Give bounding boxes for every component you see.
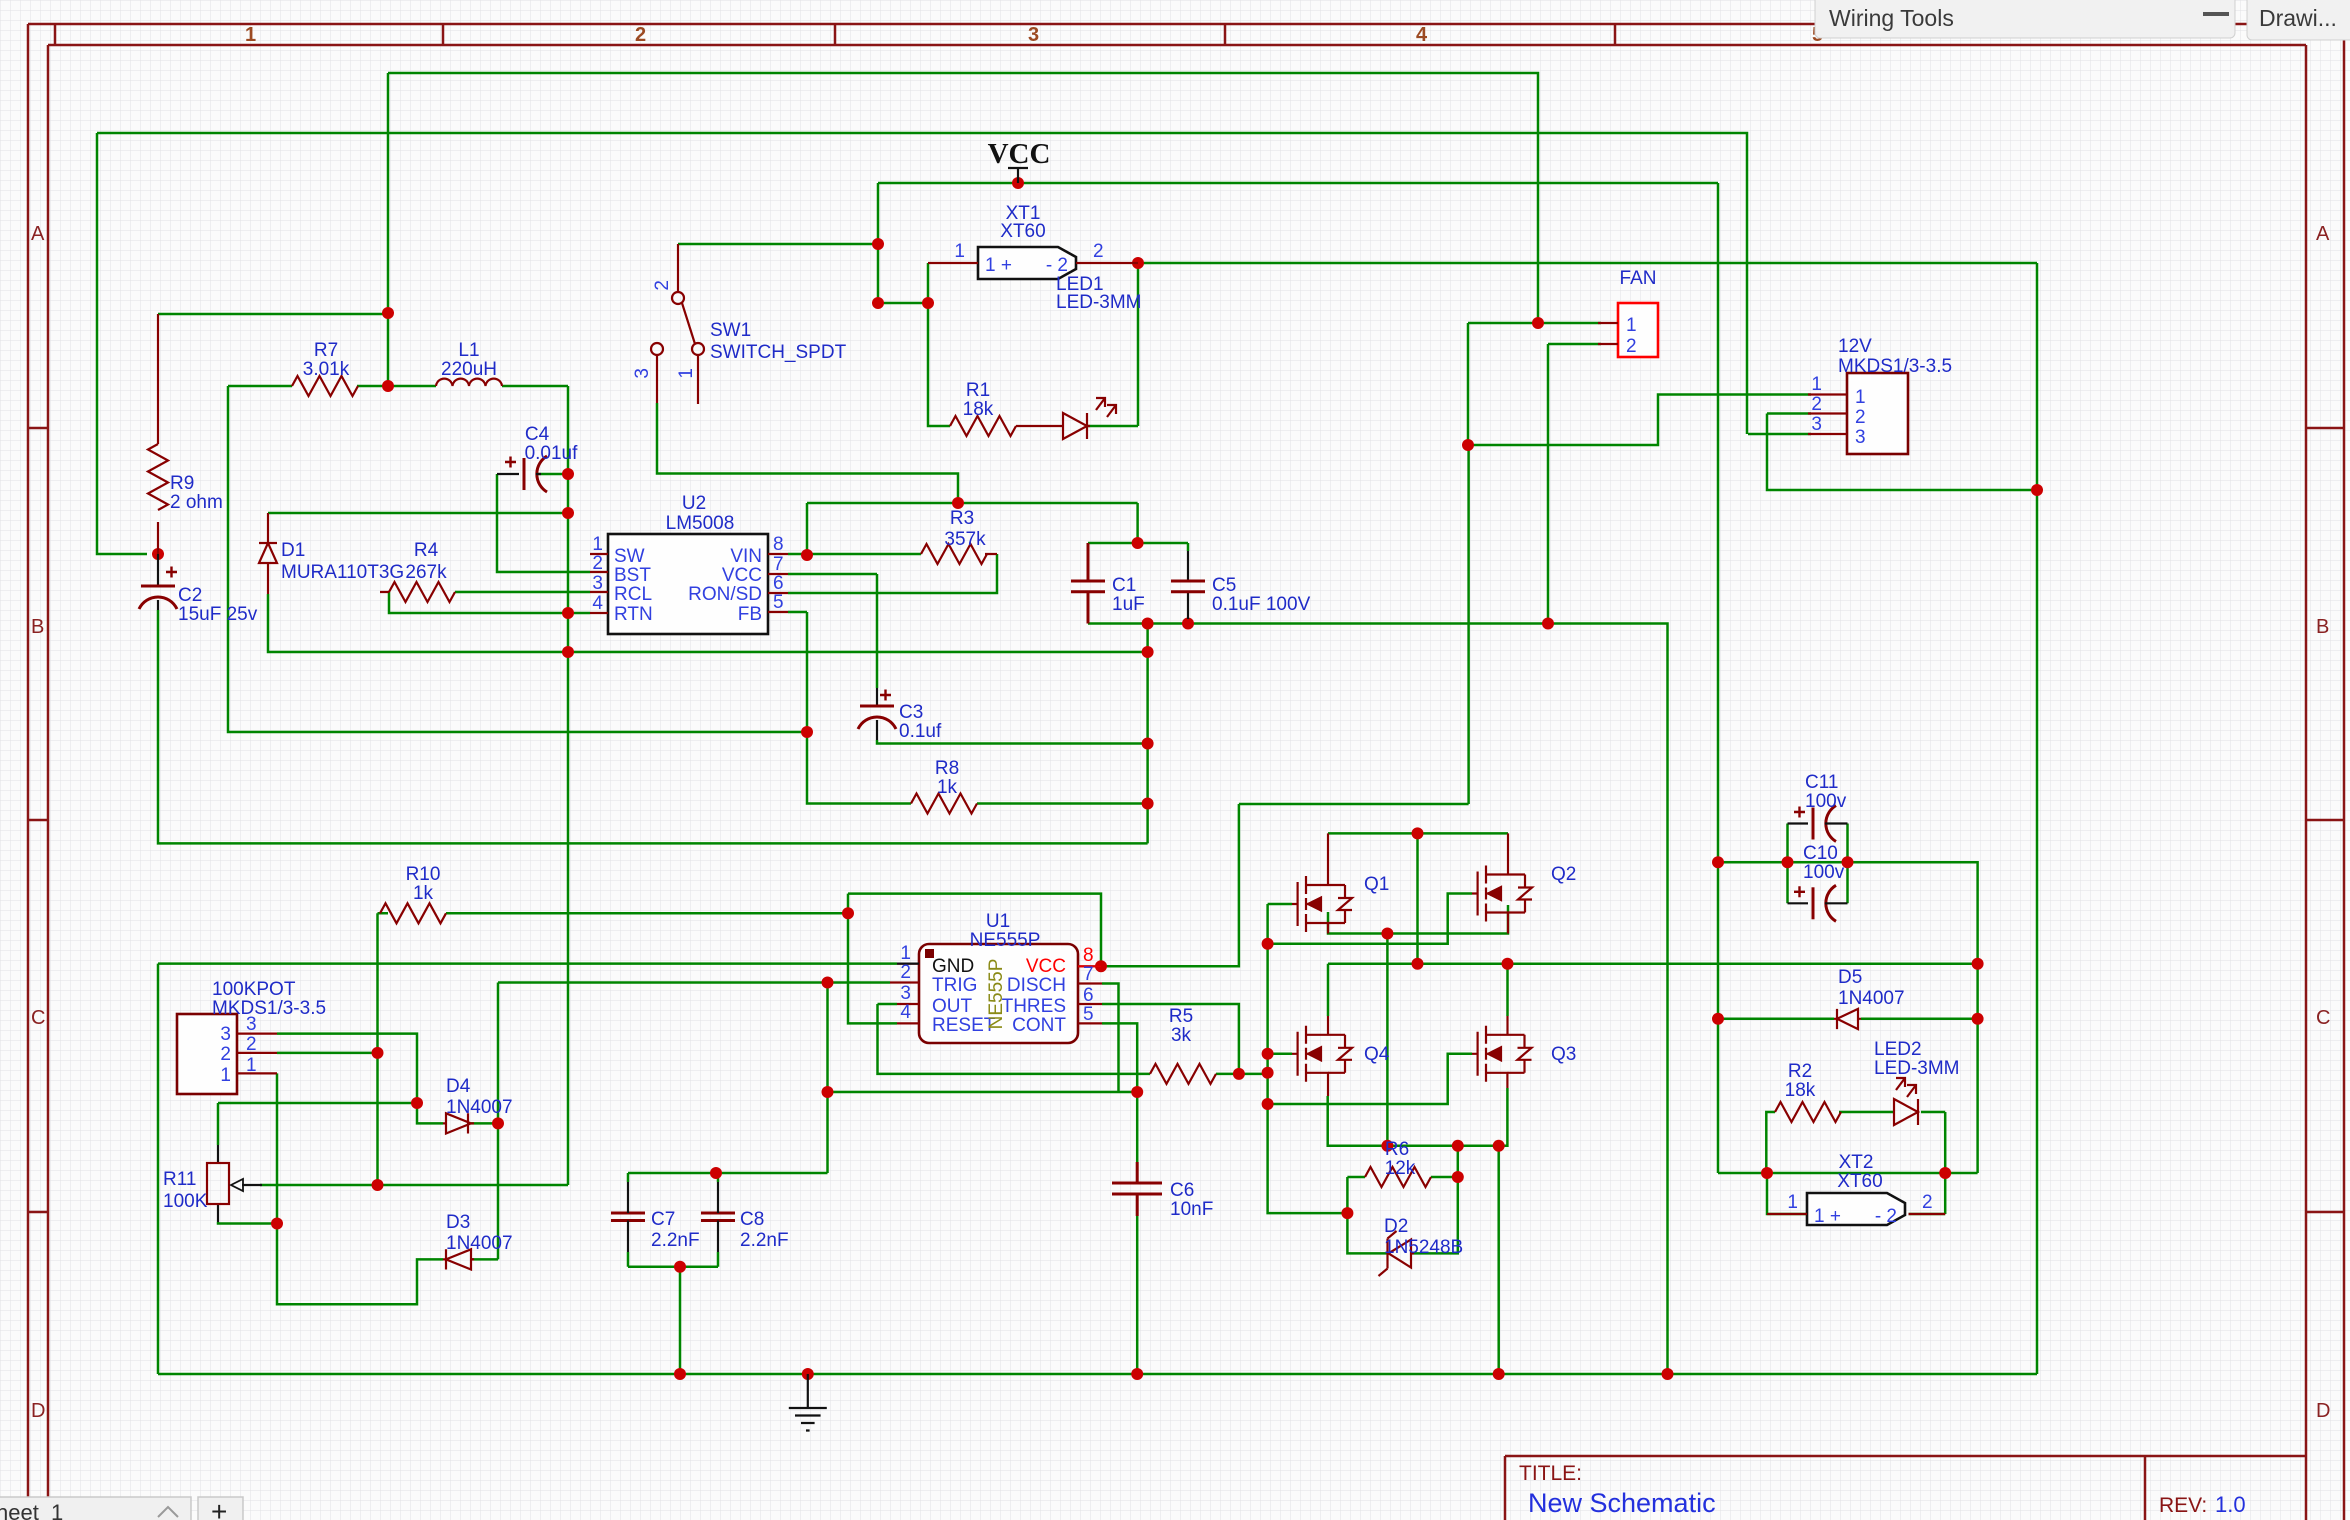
svg-text:6: 6 [773, 573, 784, 594]
wire THRES row to R5 node [1102, 1004, 1239, 1074]
svg-text:R10: R10 [406, 864, 441, 885]
wire C8 legs [717, 1173, 720, 1267]
svg-text:15uF 25v: 15uF 25v [178, 604, 258, 625]
U1 pin stubs [890, 964, 1102, 1024]
svg-text:2: 2 [220, 1044, 231, 1065]
wire R3 right to RON/SD [788, 554, 997, 593]
wire y=133 to 12V pin3 vertical [97, 133, 1747, 434]
svg-text:12k: 12k [1385, 1158, 1416, 1179]
svg-text:1: 1 [1811, 374, 1822, 395]
svg-text:R8: R8 [935, 758, 959, 779]
wire R8 node up to U1 pin8 [1101, 445, 1469, 966]
svg-text:3: 3 [1028, 24, 1039, 46]
wire VIN rail y=503 [807, 503, 1138, 554]
FAN pin stubs [1598, 323, 1618, 344]
svg-text:- 2: - 2 [1046, 255, 1068, 276]
svg-text:6: 6 [1083, 985, 1094, 1006]
svg-text:4: 4 [592, 593, 603, 614]
svg-text:VCC: VCC [1026, 956, 1066, 977]
svg-text:1: 1 [900, 943, 911, 964]
diode D3 [443, 1249, 474, 1269]
svg-text:7: 7 [773, 554, 784, 575]
svg-text:3: 3 [900, 983, 911, 1004]
wire U1 top rail y=893.6 [848, 894, 1101, 967]
svg-text:C1: C1 [1112, 575, 1136, 596]
wire VCC rail y=963.8 [1328, 964, 1978, 1016]
svg-text:GND: GND [932, 956, 974, 977]
wire x=1718 long vertical to XT2 rail [1717, 183, 1720, 1173]
svg-text:1: 1 [245, 24, 256, 46]
svg-text:MURA110T3G: MURA110T3G [281, 562, 404, 583]
wire x=568 long vertical [567, 386, 570, 1185]
wire R1 branch [928, 303, 1138, 426]
svg-text:1: 1 [220, 1065, 231, 1086]
svg-text:C5: C5 [1212, 575, 1236, 596]
wire R7 row y=386 [228, 385, 568, 388]
wire Q3 gate link [1268, 1054, 1472, 1104]
svg-text:VCC: VCC [722, 565, 762, 586]
svg-text:Q3: Q3 [1551, 1044, 1576, 1065]
capacitor C10 [1788, 885, 1848, 921]
wire DISCH TRIG link y=1092 [828, 1091, 1138, 1094]
wire GND left drop to ground rail [157, 964, 160, 1374]
svg-text:1: 1 [676, 368, 697, 379]
svg-text:R2: R2 [1788, 1061, 1812, 1082]
wire Q drain rail y=833.4 [1328, 832, 1508, 835]
svg-text:R1: R1 [966, 380, 990, 401]
wire R11 wiper row y=1185 [260, 1184, 568, 1187]
svg-text:RTN: RTN [614, 604, 653, 625]
svg-text:C4: C4 [525, 424, 550, 445]
svg-text:100v: 100v [1805, 791, 1847, 812]
resistor R5 [1150, 1064, 1216, 1084]
svg-text:1N4007: 1N4007 [1838, 988, 1905, 1009]
svg-text:7: 7 [1083, 964, 1094, 985]
svg-text:CONT: CONT [1012, 1015, 1066, 1036]
XT1 pin stubs [928, 262, 1138, 264]
wire x=878 down [877, 183, 880, 303]
svg-text:XT60: XT60 [1837, 1171, 1882, 1192]
svg-text:B: B [2316, 616, 2329, 638]
svg-text:5: 5 [773, 592, 784, 613]
svg-text:C10: C10 [1803, 843, 1838, 864]
svg-text:RON/SD: RON/SD [688, 584, 762, 605]
connector 100KPOT MKDS [177, 1014, 237, 1094]
svg-text:NE555P: NE555P [986, 959, 1007, 1030]
svg-text:LM5008: LM5008 [666, 513, 735, 534]
svg-text:8: 8 [1083, 945, 1094, 966]
VCC net flag [1008, 168, 1028, 183]
svg-text:R11: R11 [163, 1169, 196, 1190]
svg-text:1: 1 [1787, 1192, 1798, 1213]
wire C7 C8 top rail y=1173 [628, 1172, 828, 1175]
svg-text:NE555P: NE555P [970, 930, 1041, 951]
LED LED1 [1063, 398, 1116, 439]
capacitor C11 [1788, 806, 1848, 842]
capacitor C8 [701, 1213, 735, 1221]
svg-text:OUT: OUT [932, 996, 973, 1017]
wire R4 left loop to RTN y=613 [389, 592, 590, 613]
svg-text:R3: R3 [950, 508, 974, 529]
wire XT2 bottom rail [1718, 1019, 1978, 1173]
svg-text:2: 2 [1811, 394, 1822, 415]
svg-text:TRIG: TRIG [932, 975, 977, 996]
wire pot pin3 to D4 [277, 1034, 498, 1124]
wire x=1138 down to LED1 [1137, 263, 1140, 426]
IC U2 box [608, 534, 768, 634]
resistor R2 [1775, 1102, 1841, 1122]
svg-text:C3: C3 [899, 702, 923, 723]
svg-text:A: A [2316, 223, 2330, 245]
svg-text:2: 2 [900, 962, 911, 983]
wire switch pin3 to R3 top [657, 403, 958, 503]
potentiometer R11 [207, 1145, 262, 1222]
svg-text:D: D [31, 1400, 45, 1422]
svg-text:+: + [211, 1496, 227, 1520]
svg-text:R9: R9 [170, 473, 194, 494]
svg-text:Drawi...: Drawi... [2259, 5, 2337, 31]
wire C10 C11 right vertical [1846, 824, 1849, 904]
capacitor C3 [858, 688, 896, 740]
svg-text:FB: FB [738, 604, 762, 625]
wire left x=97 down to C2 top node [97, 133, 147, 554]
svg-text:D1: D1 [281, 540, 305, 561]
svg-text:D2: D2 [1384, 1216, 1408, 1237]
diode D4 [443, 1113, 474, 1133]
wire Q2 gate link [1268, 894, 1472, 944]
wire x=377.5 vertical [376, 913, 379, 1185]
svg-text:U2: U2 [682, 493, 706, 514]
svg-text:C11: C11 [1805, 772, 1838, 793]
wire VCC rail y=183 [878, 182, 1718, 185]
svg-text:10nF: 10nF [1170, 1199, 1213, 1220]
wire VIN pin stub row [788, 553, 807, 556]
svg-text:2: 2 [652, 280, 673, 291]
U1 pin1 marker [925, 949, 934, 958]
wire TRIG vertical x=827.5 [826, 983, 829, 1174]
svg-text:FAN: FAN [1620, 268, 1657, 289]
svg-text:0.01uf: 0.01uf [525, 443, 579, 464]
svg-text:3.01k: 3.01k [303, 359, 350, 380]
wire XT1 pin2 node to right [1138, 262, 2037, 265]
svg-text:3: 3 [1855, 427, 1866, 448]
U1 GND stub black [897, 962, 919, 964]
U2 pin stubs [590, 554, 788, 613]
diode D1 [259, 513, 277, 594]
resistor R10 [380, 903, 446, 923]
wire Q1 Q2 source rail y=933.5 [1328, 905, 1508, 934]
svg-text:3: 3 [1811, 414, 1822, 435]
svg-text:1N4007: 1N4007 [446, 1097, 513, 1118]
connector XT1 [978, 247, 1076, 279]
capacitor C5 [1171, 551, 1205, 619]
svg-text:Q2: Q2 [1551, 864, 1576, 885]
wire D5 row y=1018.8 [1718, 1018, 1978, 1021]
resistor R4 [380, 582, 455, 602]
svg-text:MKDS1/3-3.5: MKDS1/3-3.5 [1838, 356, 1952, 377]
wire GND row y=963.6 [158, 962, 897, 965]
svg-text:MKDS1/3-3.5: MKDS1/3-3.5 [212, 998, 326, 1019]
svg-text:Q4: Q4 [1364, 1044, 1390, 1065]
resistor R8 [911, 794, 977, 814]
svg-text:C7: C7 [651, 1209, 675, 1230]
svg-text:THRES: THRES [1002, 996, 1066, 1017]
svg-text:2: 2 [1855, 407, 1866, 428]
wire gate bus x=1267.6 [1268, 904, 1348, 1213]
capacitor C4 [497, 456, 547, 492]
node dots [382, 307, 394, 319]
svg-text:1: 1 [592, 534, 603, 555]
wire R7 left down and to FB dot y=732 [228, 386, 807, 732]
svg-text:LED2: LED2 [1874, 1039, 1922, 1060]
wire C4 left down to BST [497, 474, 590, 572]
transistor Q2 [1472, 833, 1532, 933]
wire x=1147.6 right column [1146, 624, 1149, 844]
wire R2 LED2 branch [1766, 1112, 1945, 1173]
svg-text:2: 2 [1093, 241, 1104, 262]
svg-text:Wiring Tools: Wiring Tools [1829, 5, 1954, 31]
wire mid vertical x=1417.5 [1416, 833, 1419, 963]
svg-text:18k: 18k [963, 399, 994, 420]
svg-text:1 +: 1 + [985, 255, 1012, 276]
wire x=388 vertical [387, 73, 390, 386]
wire Q3 source drop to ground [1497, 1146, 1500, 1374]
row ticks left band [28, 428, 48, 1212]
wire DISCH drop [1102, 984, 1119, 1093]
svg-text:DISCH: DISCH [1007, 975, 1066, 996]
svg-text:220uH: 220uH [441, 359, 497, 380]
svg-text:C: C [31, 1007, 45, 1029]
svg-text:267k: 267k [405, 562, 447, 583]
svg-text:1k: 1k [413, 883, 434, 904]
svg-text:4: 4 [900, 1002, 911, 1023]
svg-text:100v: 100v [1803, 862, 1845, 883]
svg-text:Q1: Q1 [1364, 874, 1389, 895]
wire C2 bottom to right rail y=843.4 [158, 610, 1148, 843]
svg-text:2: 2 [1922, 1192, 1933, 1213]
LED LED2 [1894, 1078, 1918, 1125]
wire C7 C8 bottom rail [628, 1267, 718, 1374]
wire C6 bottom to ground rail [1136, 1216, 1139, 1374]
svg-text:8: 8 [773, 534, 784, 555]
svg-text:XT60: XT60 [1000, 221, 1045, 242]
title block [1505, 1456, 2306, 1520]
12V pin stubs [1808, 395, 1847, 435]
wire Q bottom rail y=1145.7 [1328, 1088, 1508, 1146]
wire C7 legs [627, 1173, 630, 1267]
wire RCL row y=592 from R4 [455, 591, 590, 594]
wire D1 top rail y=513 [268, 512, 568, 515]
svg-text:- 2: - 2 [1875, 1206, 1897, 1227]
svg-text:1N5248B: 1N5248B [1384, 1237, 1463, 1258]
svg-text:12V: 12V [1838, 336, 1872, 357]
zener diode D2 [1379, 1231, 1415, 1276]
capacitor C6 [1112, 1162, 1162, 1216]
wire 12V pin2 loop [1767, 414, 2037, 491]
row ticks right band [2306, 428, 2344, 1212]
svg-text:TITLE:: TITLE: [1519, 1462, 1582, 1485]
svg-text:RCL: RCL [614, 584, 652, 605]
wire XT2 pins [1767, 1173, 1945, 1214]
wire C1 C5 top rail y=543 [1088, 543, 1188, 551]
svg-text:C: C [2316, 1007, 2330, 1029]
ground symbol [789, 1374, 827, 1431]
Sheet tab [0, 1496, 243, 1520]
svg-text:3: 3 [220, 1024, 231, 1045]
wire Q4 gate link [1268, 1053, 1292, 1056]
svg-text:1: 1 [246, 1055, 257, 1076]
resistor R1 [950, 416, 1063, 436]
svg-text:0.1uf: 0.1uf [899, 721, 942, 742]
svg-text:U1: U1 [986, 911, 1010, 932]
inductor L1 [436, 379, 502, 386]
svg-text:SW: SW [614, 546, 645, 567]
resistor R6 [1365, 1167, 1431, 1187]
wire FAN pin1 branch [1468, 323, 1811, 445]
wire OUT loop to R5 [878, 1004, 1268, 1074]
svg-text:R4: R4 [414, 540, 439, 561]
svg-text:VCC: VCC [988, 138, 1051, 170]
transistor Q4 [1292, 1016, 1352, 1096]
svg-text:B: B [31, 616, 44, 638]
wire R3 row y=554 [807, 553, 921, 556]
svg-text:LED-3MM: LED-3MM [1056, 292, 1142, 313]
Wiring Tools panel [1815, 0, 2235, 38]
svg-text:New Schematic: New Schematic [1528, 1488, 1716, 1518]
transistor Q3 [1472, 1016, 1532, 1088]
wire C10 C11 left vertical [1786, 824, 1789, 904]
svg-text:1: 1 [954, 241, 965, 262]
wire R10 row y=913.3 [378, 912, 849, 915]
wire CONT to C6 [1102, 1023, 1137, 1162]
svg-text:2.2nF: 2.2nF [651, 1230, 700, 1251]
IC U1 NE555P box [919, 944, 1078, 1043]
switch SW1 [651, 244, 704, 404]
svg-text:3k: 3k [1171, 1025, 1192, 1046]
svg-text:100KPOT: 100KPOT [212, 979, 296, 1000]
svg-text:XT2: XT2 [1839, 1152, 1874, 1173]
svg-text:D3: D3 [446, 1212, 470, 1233]
svg-text:heet_1: heet_1 [0, 1500, 63, 1520]
U1 pin8 stub red [1078, 965, 1101, 967]
wire 12V pin3 stub [1748, 433, 1811, 436]
resistor R7 [292, 376, 358, 396]
svg-text:R5: R5 [1169, 1006, 1193, 1027]
svg-text:A: A [31, 223, 45, 245]
wire C3 bottom rail [877, 740, 1148, 744]
wire XT1 left branch [878, 263, 928, 303]
100KPOT pin stubs [237, 1034, 277, 1074]
svg-text:2.2nF: 2.2nF [740, 1230, 789, 1251]
wire FB down to R8 row [788, 612, 1148, 804]
capacitor C7 [611, 1213, 645, 1221]
svg-text:1.0: 1.0 [2215, 1492, 2246, 1517]
svg-text:5: 5 [1083, 1004, 1094, 1025]
wire VCC7 to C3 [788, 574, 877, 688]
wire x=1387.4 down [1386, 934, 1389, 1146]
svg-text:R6: R6 [1385, 1139, 1409, 1160]
svg-text:C8: C8 [740, 1209, 764, 1230]
svg-text:0.1uF 100V: 0.1uF 100V [1212, 594, 1311, 615]
svg-text:L1: L1 [458, 340, 479, 361]
capacitor C1 [1071, 543, 1105, 624]
svg-text:R7: R7 [314, 340, 338, 361]
svg-text:100K: 100K [163, 1191, 208, 1212]
svg-text:3: 3 [592, 573, 603, 594]
transistor Q1 [1292, 833, 1352, 933]
svg-text:4: 4 [1416, 24, 1428, 46]
svg-text:1N4007: 1N4007 [446, 1233, 513, 1254]
svg-text:REV:: REV: [2159, 1494, 2207, 1517]
svg-text:2: 2 [592, 553, 603, 574]
resistor R3 [921, 544, 997, 564]
wire R6 branch [1347, 1146, 1457, 1254]
svg-text:C6: C6 [1170, 1180, 1194, 1201]
wire top long y=73 [388, 73, 1538, 323]
svg-text:SW1: SW1 [710, 320, 751, 341]
wire switch pin2 to battery branch y=244 [678, 243, 878, 246]
column ticks top band [55, 24, 1615, 45]
connector FAN [1618, 303, 1658, 357]
capacitor C2 [139, 554, 177, 610]
resistor R9 [148, 314, 168, 554]
svg-text:2: 2 [246, 1034, 257, 1055]
wire R11 top rail y=1103 [218, 1103, 417, 1145]
svg-text:2 ohm: 2 ohm [170, 492, 223, 513]
Drawing Tools panel [2247, 0, 2350, 40]
connector 12V MKDS [1847, 373, 1908, 454]
wire C1 C5 bottom rail to right drop [1088, 624, 1668, 1375]
wire pot pin1 loop to D3 [277, 1073, 498, 1304]
connector XT2 [1807, 1193, 1905, 1225]
wire C10 C11 rail y=862.2 [1718, 862, 1978, 1019]
wire x=498 vertical D4 D3 to TRIG [497, 983, 500, 1260]
svg-text:1k: 1k [937, 777, 958, 798]
svg-text:C2: C2 [178, 585, 202, 606]
svg-text:2: 2 [635, 24, 646, 46]
svg-text:BST: BST [614, 565, 651, 586]
svg-text:1: 1 [1626, 315, 1637, 336]
svg-text:D: D [2316, 1400, 2330, 1422]
svg-text:2: 2 [1626, 336, 1637, 357]
XT2 pin stubs [1767, 1213, 1945, 1215]
wire x=2037 right vertical [2036, 263, 2039, 1374]
diode D5 [1834, 1009, 1861, 1029]
wire ground rail y=1374 [158, 1373, 2037, 1376]
wire R11 bottom [218, 1222, 277, 1224]
svg-text:357k: 357k [944, 529, 986, 550]
wire D1 bottom rail y=652 [268, 594, 1148, 652]
wire RESET drop [848, 894, 897, 1024]
wire TRIG row y=982.5 [498, 981, 890, 984]
svg-text:LED-3MM: LED-3MM [1874, 1058, 1960, 1079]
svg-text:VIN: VIN [730, 546, 762, 567]
wire C4 right to x=568 [536, 473, 568, 476]
wire R9 top row y=314 [158, 313, 388, 316]
wire FAN pin2 down to ground rail [1548, 344, 1601, 624]
svg-text:D5: D5 [1838, 967, 1862, 988]
svg-text:D4: D4 [446, 1076, 471, 1097]
svg-text:3: 3 [632, 368, 653, 379]
svg-text:1: 1 [1855, 387, 1866, 408]
svg-text:SWITCH_SPDT: SWITCH_SPDT [710, 342, 847, 363]
wire pot pin2 [277, 1052, 378, 1055]
svg-text:1 +: 1 + [1814, 1206, 1841, 1227]
svg-text:3: 3 [246, 1014, 257, 1035]
svg-text:18k: 18k [1785, 1080, 1816, 1101]
svg-text:1uF: 1uF [1112, 594, 1145, 615]
